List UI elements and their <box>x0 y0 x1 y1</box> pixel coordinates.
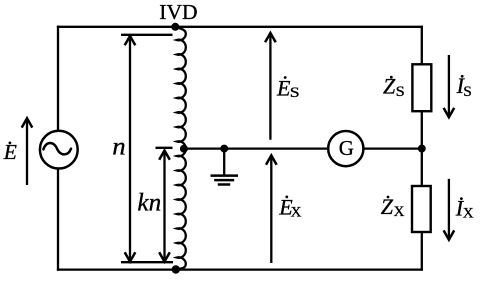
label IS <box>456 73 472 100</box>
svg-text:S: S <box>290 85 300 101</box>
dimension arrow n (double headed) <box>125 36 136 262</box>
svg-text:S: S <box>396 84 405 100</box>
arrow ES (voltage arrow up) <box>265 33 276 140</box>
node top (junction dot at IVD top) <box>171 23 179 31</box>
sine symbol inside source <box>43 143 71 154</box>
label ZX <box>381 194 405 220</box>
svg-text:X: X <box>394 204 405 220</box>
svg-text:Z: Z <box>383 74 396 99</box>
node right (junction of ZS ZX and G) <box>418 145 426 153</box>
svg-text:kn: kn <box>137 190 161 217</box>
dimension tick bottom <box>121 261 173 263</box>
svg-text:IVD: IVD <box>159 0 197 24</box>
dimension tick top (n upper reference) <box>121 34 173 36</box>
label EX <box>278 195 301 221</box>
wire top <box>57 26 423 28</box>
svg-text:X: X <box>291 204 302 220</box>
wire right bottom segment <box>421 231 423 271</box>
arrow IS (current arrow down) <box>444 55 455 117</box>
wire right between node and ZX <box>421 148 423 187</box>
label ZS <box>383 74 405 100</box>
ground <box>211 149 239 185</box>
impedance ZS (box) <box>412 64 431 111</box>
svg-text:S: S <box>463 84 472 100</box>
wire right between ZS and node <box>421 110 423 150</box>
label ES <box>276 76 300 101</box>
label IX <box>455 196 474 222</box>
svg-text:n: n <box>112 134 125 161</box>
wire left upper <box>57 26 59 132</box>
dimension arrow kn (double headed) <box>159 151 170 262</box>
arrow EX (voltage arrow up) <box>266 155 277 263</box>
wire tap left (coil tap to galvanometer) <box>183 147 329 149</box>
arrow E (emf direction) <box>22 118 33 185</box>
arrow IX (current arrow down) <box>444 179 455 240</box>
node tap (junction dot at wiper) <box>180 145 188 153</box>
node bottom (coil bottom on return wire) <box>172 265 180 273</box>
wire left lower <box>57 169 59 271</box>
wire right top segment <box>421 26 423 66</box>
wire bottom <box>57 268 423 270</box>
wire tap right (galvanometer to right node) <box>364 147 422 149</box>
galvanometer G <box>328 131 363 166</box>
coil L1 (inductive voltage divider winding) <box>175 28 186 269</box>
svg-text:X: X <box>463 206 474 222</box>
label E source <box>3 140 17 164</box>
source U1 (AC source circle) <box>40 131 78 169</box>
svg-text:G: G <box>339 136 354 160</box>
svg-text:E: E <box>276 76 291 101</box>
dimension tick middle (kn upper reference) <box>156 147 173 149</box>
impedance ZX (box) <box>412 186 431 232</box>
node ground junction <box>220 145 228 153</box>
